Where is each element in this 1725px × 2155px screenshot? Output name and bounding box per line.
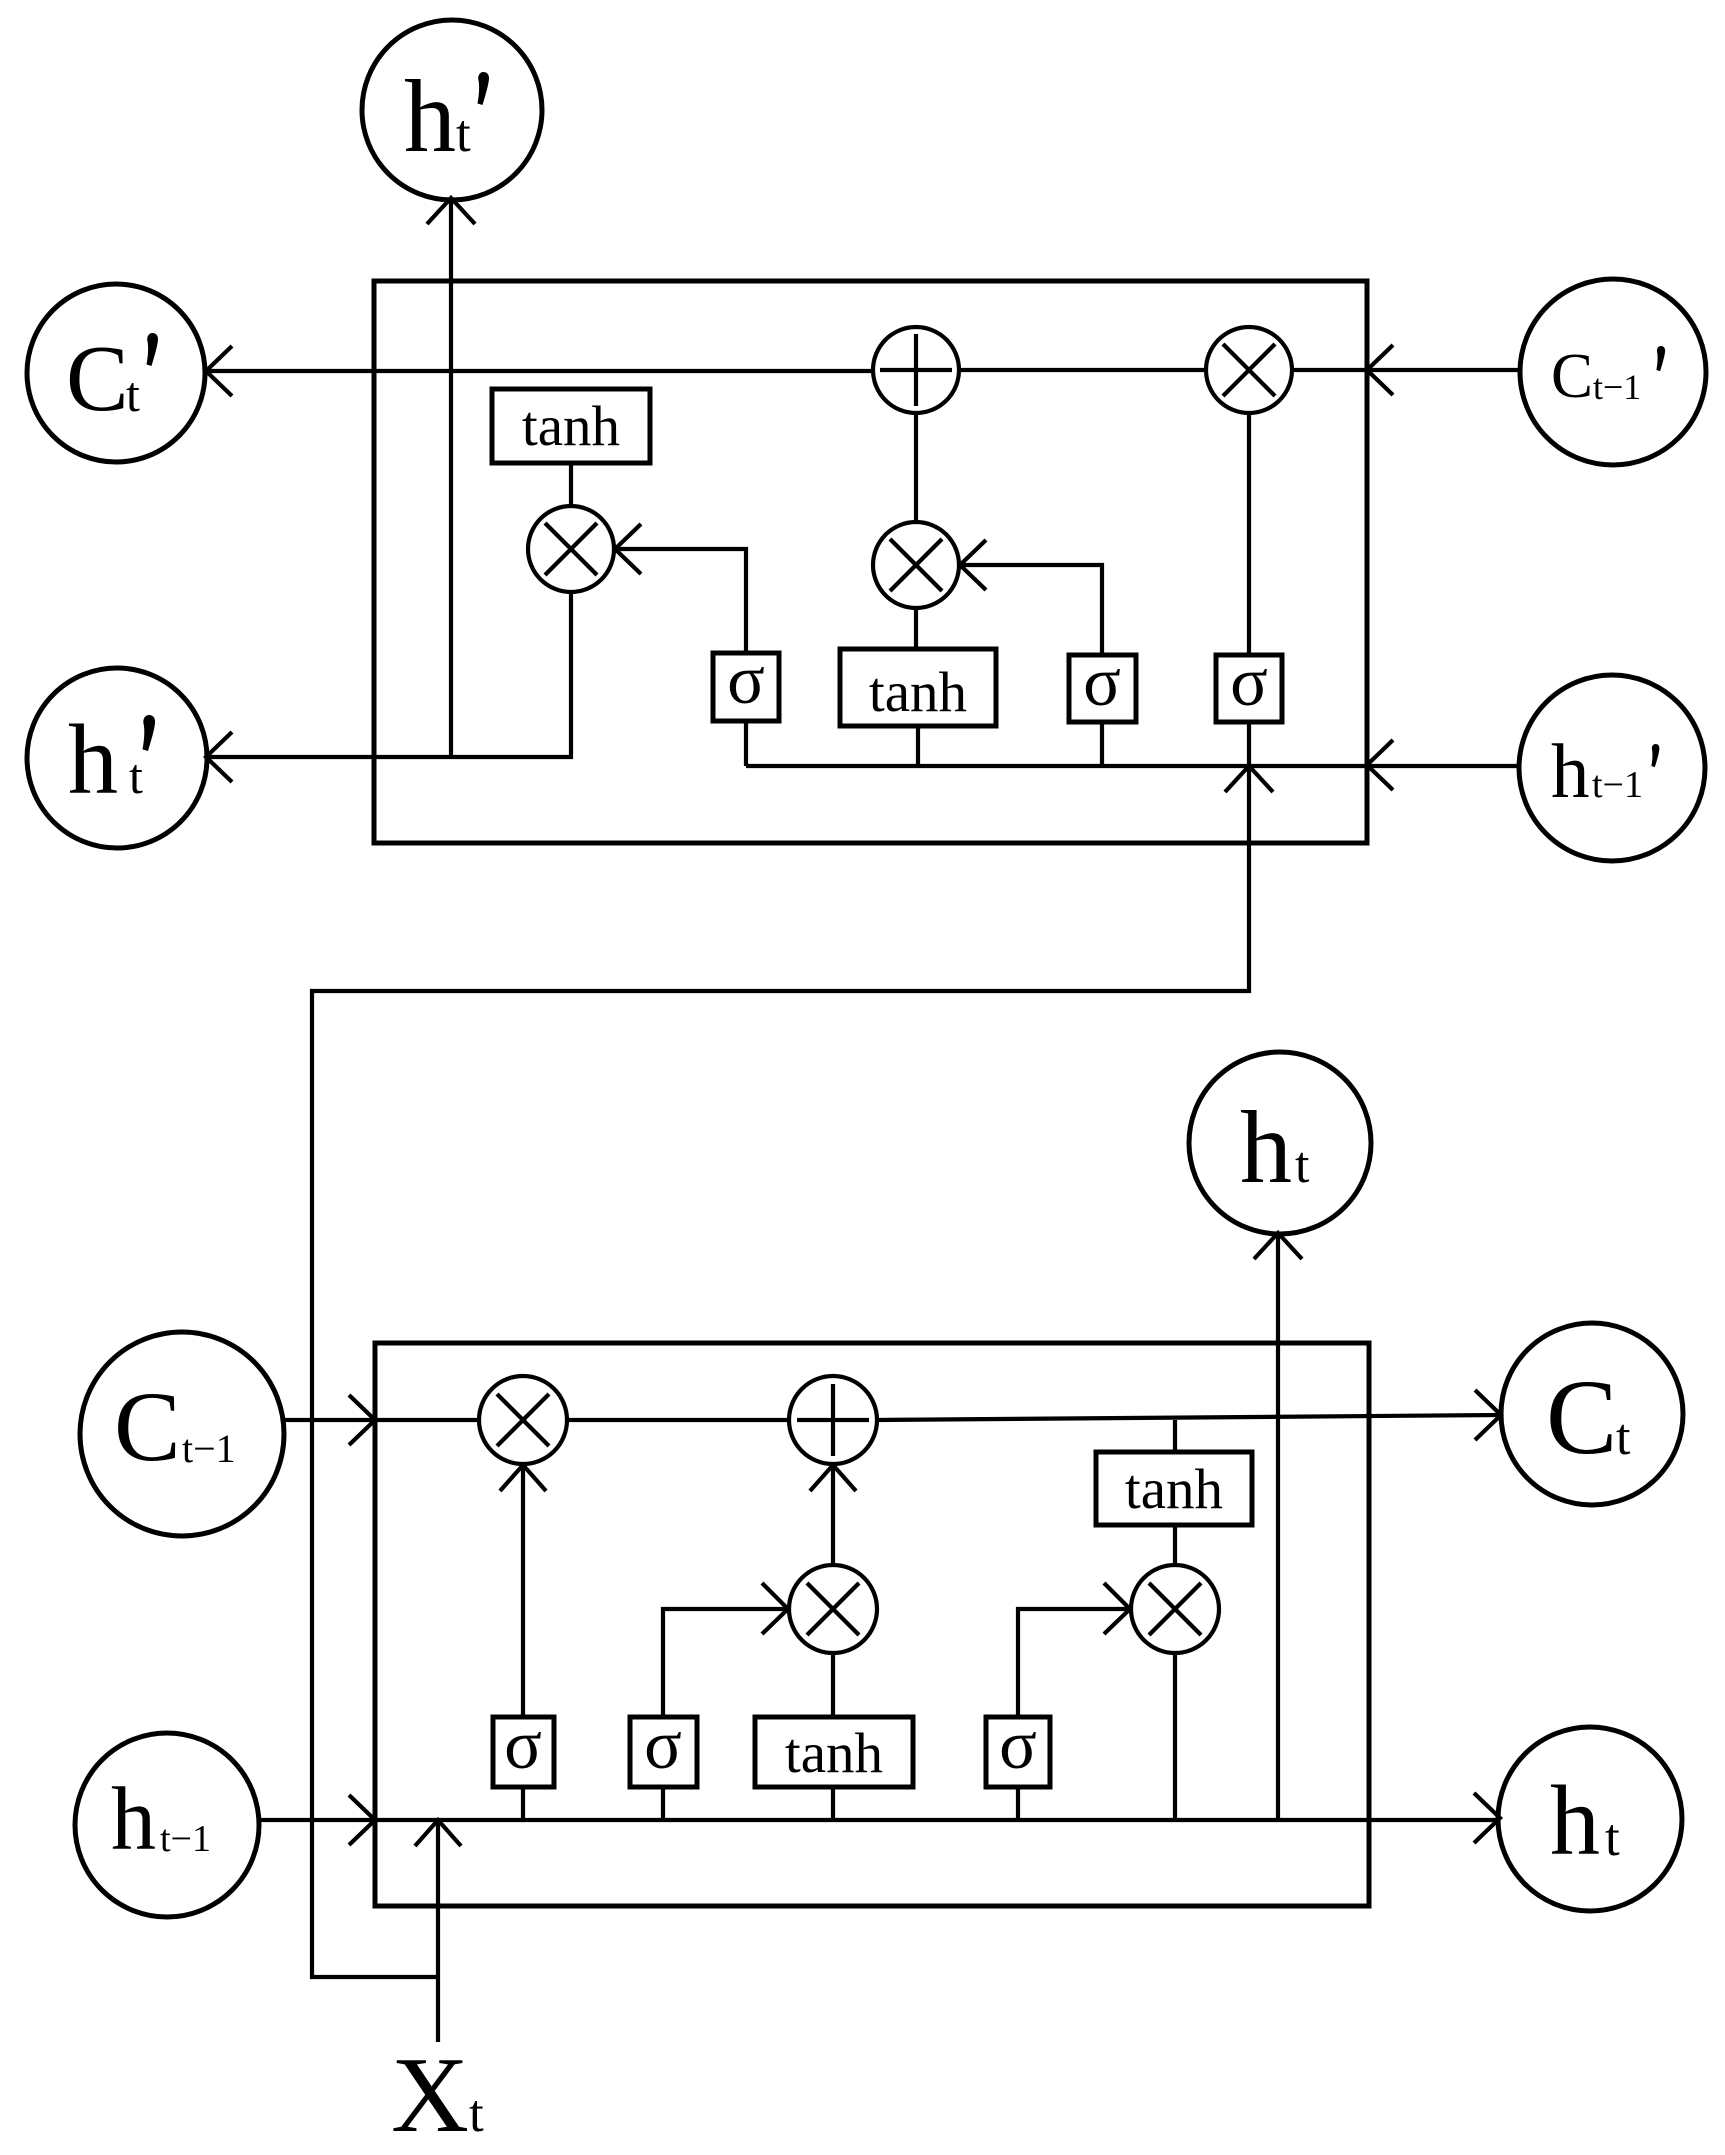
svg-text:t−1: t−1 xyxy=(1592,764,1643,806)
svg-text:t−1: t−1 xyxy=(182,1426,236,1471)
svg-text:tanh: tanh xyxy=(1125,1458,1223,1521)
svg-text:C: C xyxy=(114,1371,181,1482)
svg-text:t: t xyxy=(1295,1137,1310,1194)
svg-text:h: h xyxy=(1550,1765,1600,1876)
svg-text:C: C xyxy=(66,327,129,431)
svg-text:σ: σ xyxy=(1230,644,1268,721)
svg-text:tanh: tanh xyxy=(522,395,620,458)
svg-text:h: h xyxy=(111,1770,156,1869)
svg-text:h: h xyxy=(1551,728,1590,814)
svg-text:σ: σ xyxy=(1083,644,1121,721)
svg-text:tanh: tanh xyxy=(869,661,967,724)
svg-text:σ: σ xyxy=(727,642,765,719)
svg-text:h: h xyxy=(68,704,118,815)
svg-text:t: t xyxy=(469,2085,484,2143)
svg-text:t: t xyxy=(456,105,471,163)
svg-text:t: t xyxy=(1605,1809,1620,1867)
svg-text:σ: σ xyxy=(504,1707,542,1784)
svg-text:t−1: t−1 xyxy=(160,1818,211,1860)
svg-text:σ: σ xyxy=(644,1707,682,1784)
svg-text:t−1: t−1 xyxy=(1593,367,1641,407)
svg-text:h: h xyxy=(404,59,456,174)
svg-text:C: C xyxy=(1551,341,1593,411)
svg-text:t: t xyxy=(129,748,143,804)
svg-text:C: C xyxy=(1546,1359,1617,1477)
svg-text:h: h xyxy=(1240,1090,1292,1205)
svg-text:t: t xyxy=(1616,1409,1631,1466)
svg-text:X: X xyxy=(391,2036,469,2155)
svg-text:σ: σ xyxy=(999,1707,1037,1784)
svg-text:tanh: tanh xyxy=(785,1722,883,1785)
svg-text:t: t xyxy=(126,366,140,422)
